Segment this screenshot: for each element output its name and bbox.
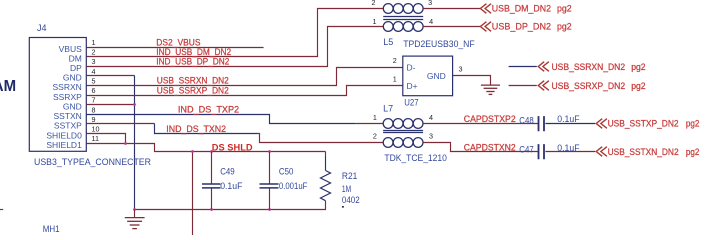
svg-text:2: 2 <box>373 132 377 141</box>
svg-text:3: 3 <box>92 57 96 66</box>
svg-text:0.001uF: 0.001uF <box>279 181 308 191</box>
svg-text:DS SHLD: DS SHLD <box>212 142 253 152</box>
svg-text:L7: L7 <box>383 104 393 114</box>
svg-text:R21: R21 <box>342 171 357 181</box>
wire pin9 IND_DS_TXN2 part2 <box>155 124 258 134</box>
svg-text:pg2: pg2 <box>686 119 700 129</box>
svg-text:11: 11 <box>92 134 99 143</box>
chevron USB_DM_DN2 <box>480 4 491 14</box>
svg-text:pg2: pg2 <box>631 62 645 72</box>
wire C47 to SSTXN label <box>545 151 595 153</box>
resistor R21 top lead <box>325 152 327 157</box>
svg-text:USB_SSRXP_DN2: USB_SSRXP_DN2 <box>157 85 229 95</box>
ground symbol right of U27 <box>481 85 500 94</box>
svg-text:USB_SSTXP_DN2: USB_SSTXP_DN2 <box>608 119 679 129</box>
svg-text:3: 3 <box>459 65 463 74</box>
capacitor C50 plates <box>260 184 279 188</box>
capacitor C47 plates <box>539 144 545 159</box>
svg-text:CAPDSTXN2: CAPDSTXN2 <box>464 142 516 152</box>
svg-text:SHIELD1: SHIELD1 <box>46 140 82 150</box>
capacitor C49 plates <box>202 184 221 188</box>
svg-text:TDK_TCE_1210: TDK_TCE_1210 <box>384 153 447 163</box>
svg-text:0.1uF: 0.1uF <box>557 143 580 153</box>
svg-text:AM: AM <box>0 78 16 95</box>
svg-text:C50: C50 <box>279 167 294 177</box>
svg-text:7: 7 <box>92 96 96 105</box>
L5 right wires <box>423 9 480 27</box>
svg-text:0.1uF: 0.1uF <box>220 181 243 191</box>
svg-text:DS2_VBUS: DS2_VBUS <box>156 37 200 47</box>
svg-text:TPD2EUSB30_NF: TPD2EUSB30_NF <box>403 39 475 49</box>
svg-text:8: 8 <box>92 105 96 114</box>
svg-text:2: 2 <box>92 48 96 57</box>
svg-text:pg2: pg2 <box>686 147 700 157</box>
svg-text:3: 3 <box>429 132 433 141</box>
svg-text:USB_SSRXN_DN2: USB_SSRXN_DN2 <box>552 62 626 72</box>
svg-text:1: 1 <box>373 113 377 122</box>
svg-text:2: 2 <box>393 56 397 65</box>
svg-text:D+: D+ <box>407 81 418 91</box>
wire bottom rail <box>135 209 327 211</box>
wire drop from DS_SHLD to bottom edge <box>192 152 194 236</box>
svg-text:pg2: pg2 <box>631 81 645 91</box>
pin names <box>46 44 82 150</box>
junction DS_SHLD drop <box>191 150 194 153</box>
wire pin10 SHIELD0 <box>87 134 126 144</box>
svg-text:IND_USB_DP_DN2: IND_USB_DP_DN2 <box>156 57 229 67</box>
chevron USB_SSTXN_DN2 <box>596 147 607 157</box>
svg-text:IND_USB_DM_DN2: IND_USB_DM_DN2 <box>156 47 231 57</box>
SSRXP label stub <box>509 85 537 87</box>
svg-text:0.1uF: 0.1uF <box>557 114 580 124</box>
svg-text:SHIELD0: SHIELD0 <box>46 130 82 140</box>
svg-text:CAPDSTXP2: CAPDSTXP2 <box>464 114 516 124</box>
junction pin10/pin11 <box>124 142 127 145</box>
wire pin8 IND_DS_TXP2 <box>87 115 356 124</box>
choke L7 core bars <box>383 131 423 133</box>
svg-text:9: 9 <box>92 115 96 124</box>
junction GND rail/bottom rail <box>133 208 136 211</box>
svg-text:IND_DS_TXP2: IND_DS_TXP2 <box>178 104 239 114</box>
svg-text:4: 4 <box>92 67 96 76</box>
svg-text:1: 1 <box>92 38 96 47</box>
svg-text:USB_DM_DN2: USB_DM_DN2 <box>492 3 551 13</box>
wire pin3 DP to L5 pin1 <box>87 27 384 67</box>
wire L7 pin1 stub <box>355 123 383 125</box>
junction C49 top <box>210 150 213 153</box>
svg-text:J4: J4 <box>37 23 47 33</box>
chevron USB_DP_DN2 <box>480 22 491 32</box>
ESD U27 body <box>403 56 453 96</box>
chevron USB_SSTXP_DN2 <box>596 119 607 129</box>
svg-text:U27: U27 <box>404 97 418 107</box>
svg-text:SSTXN: SSTXN <box>53 111 81 121</box>
wire pin5 SSRXN to U27 D- <box>87 68 403 86</box>
wire GND rail vertical <box>134 76 136 210</box>
resistor R21 bottom lead <box>325 201 327 210</box>
wire pin9 IND_DS_TXN2 part3 to L7 pin2 <box>257 134 383 143</box>
svg-text:DM: DM <box>69 53 82 63</box>
svg-text:pg2: pg2 <box>557 3 572 13</box>
ground symbol below connector <box>125 210 145 229</box>
svg-text:GND: GND <box>63 73 82 83</box>
choke L5 coils <box>383 4 423 32</box>
wire L7 pin3 to C47 <box>423 143 538 152</box>
svg-text:4: 4 <box>429 17 433 26</box>
stray dot under 0402 <box>342 206 344 208</box>
U27 pin3 stub to ground <box>453 76 491 86</box>
svg-text:VBUS: VBUS <box>59 44 82 54</box>
resistor R21 zigzag <box>321 171 331 201</box>
svg-text:1: 1 <box>373 17 377 26</box>
wire pin2 DM to L5 pin2 <box>87 9 384 57</box>
capacitor C50 leads <box>269 152 271 210</box>
svg-text:L5: L5 <box>383 37 393 47</box>
junction pin7/GND rail <box>133 103 136 106</box>
chevron USB_SSRXN_DN2 <box>538 62 549 72</box>
svg-text:GND: GND <box>427 71 446 81</box>
svg-text:USB_SSRXP_DN2: USB_SSRXP_DN2 <box>552 81 626 91</box>
svg-text:D-: D- <box>407 62 416 72</box>
svg-text:DP: DP <box>70 63 82 73</box>
capacitor C49 leads <box>211 152 213 210</box>
wire pin6 SSRXP to U27 D+ <box>87 86 403 96</box>
svg-text:USB_SSTXN_DN2: USB_SSTXN_DN2 <box>608 147 679 157</box>
wire L7 pin4 to C48 <box>423 123 538 125</box>
junction C50 bottom <box>268 208 271 211</box>
wire pin7 GND stub <box>87 104 135 106</box>
svg-text:USB_SSRXN_DN2: USB_SSRXN_DN2 <box>157 76 229 86</box>
svg-text:IND_DS_TXN2: IND_DS_TXN2 <box>166 124 226 134</box>
svg-text:4: 4 <box>429 113 433 122</box>
wire left edge stub <box>0 209 3 211</box>
capacitor C48 plates <box>539 116 545 131</box>
svg-text:6: 6 <box>92 86 96 95</box>
svg-text:USB3_TYPEA_CONNECTER: USB3_TYPEA_CONNECTER <box>34 157 151 167</box>
svg-text:SSRXN: SSRXN <box>53 82 82 92</box>
svg-text:5: 5 <box>92 76 96 85</box>
svg-text:MH1: MH1 <box>43 224 60 234</box>
svg-text:C49: C49 <box>220 167 235 177</box>
svg-text:C48: C48 <box>519 115 533 125</box>
wire C48 to SSTXP label <box>545 123 595 125</box>
pin numbers 1-11 <box>92 38 100 143</box>
svg-text:pg2: pg2 <box>557 22 572 32</box>
junction C49 bottom <box>210 208 213 211</box>
choke L7 coils <box>383 119 423 148</box>
SSRXN label stub <box>509 66 537 68</box>
choke L5 core bars <box>383 17 423 20</box>
wire pin4 GND stub <box>87 75 135 77</box>
svg-text:1M: 1M <box>342 184 351 194</box>
wire pin11 SHIELD1 / DS_SHLD rail <box>87 144 326 152</box>
svg-text:0402: 0402 <box>342 195 360 205</box>
svg-text:C47: C47 <box>519 144 533 154</box>
connector J4 body <box>29 38 86 152</box>
svg-text:3: 3 <box>428 0 432 7</box>
svg-text:SSTXP: SSTXP <box>54 121 82 131</box>
wire pin1 DS2_VBUS <box>87 47 264 49</box>
wire pin9 IND_DS_TXN2 part1 <box>87 123 155 125</box>
svg-text:GND: GND <box>63 102 82 112</box>
svg-text:USB_DP_DN2: USB_DP_DN2 <box>492 22 551 32</box>
junction C50 top <box>268 150 271 153</box>
svg-text:2: 2 <box>372 0 376 7</box>
chevron USB_SSRXP_DN2 <box>538 81 549 91</box>
svg-text:SSRXP: SSRXP <box>53 92 82 102</box>
svg-text:10: 10 <box>92 125 100 134</box>
svg-text:1: 1 <box>393 75 397 84</box>
